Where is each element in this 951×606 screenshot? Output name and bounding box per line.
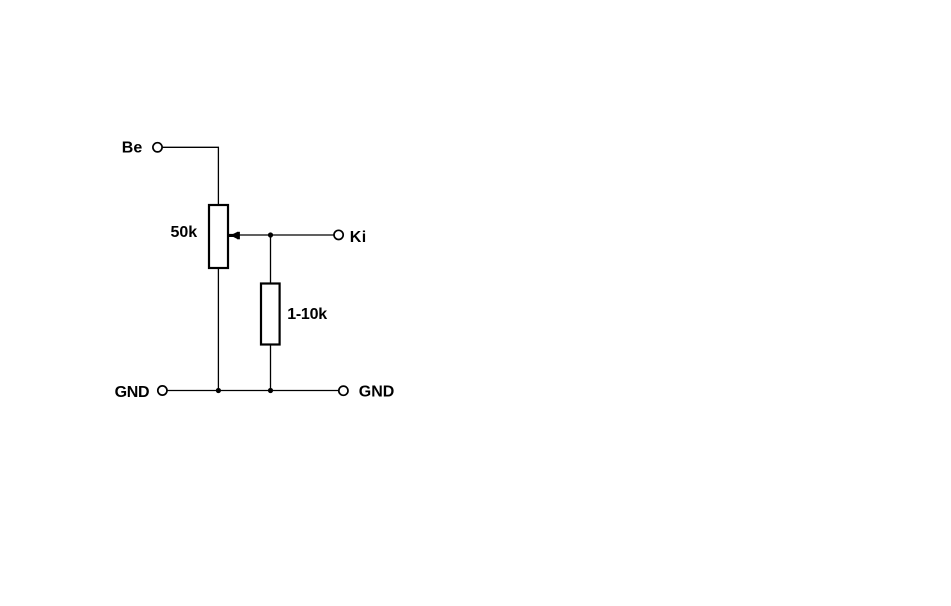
- wire pot bottom to GND rail: [217, 268, 219, 391]
- junction node pot/GND: [216, 388, 221, 393]
- wire Be to pot top: [163, 147, 219, 204]
- svg-text:GND: GND: [115, 384, 150, 401]
- junction node resistor/GND: [268, 388, 273, 393]
- wire junction to resistor top: [270, 235, 272, 283]
- terminal Ki: [334, 230, 343, 239]
- wire wiper to Ki: [238, 234, 334, 236]
- svg-text:Be: Be: [122, 140, 143, 157]
- svg-text:GND: GND: [359, 383, 395, 400]
- terminal GND left: [158, 386, 167, 395]
- potentiometer R1 body: [209, 205, 228, 268]
- terminal Be: [153, 143, 162, 152]
- svg-text:Ki: Ki: [350, 229, 367, 246]
- svg-text:1-10k: 1-10k: [287, 306, 327, 323]
- resistor R2 body: [261, 284, 280, 345]
- junction node wiper/Ki: [268, 232, 273, 237]
- wire GND rail: [167, 390, 339, 392]
- terminal GND right: [339, 386, 348, 395]
- svg-text:50k: 50k: [171, 224, 198, 241]
- wiper arrow: [229, 232, 240, 240]
- wire resistor bottom to GND rail: [270, 345, 272, 391]
